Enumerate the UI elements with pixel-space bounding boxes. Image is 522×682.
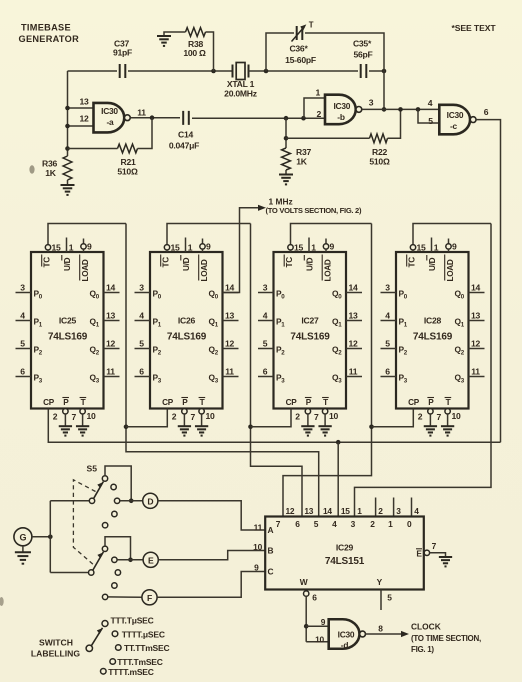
svg-text:E: E: [416, 549, 422, 559]
svg-text:11: 11: [106, 367, 115, 377]
svg-text:20.0MHz: 20.0MHz: [224, 89, 257, 99]
svg-text:LOAD: LOAD: [324, 259, 333, 281]
svg-text:9: 9: [254, 563, 259, 573]
svg-text:T: T: [309, 21, 314, 30]
svg-text:3: 3: [263, 283, 268, 293]
svg-text:10: 10: [87, 411, 97, 421]
svg-text:12: 12: [225, 339, 235, 349]
svg-text:R22: R22: [372, 147, 387, 157]
svg-text:TC: TC: [161, 257, 170, 268]
svg-text:12: 12: [79, 114, 89, 124]
svg-text:11: 11: [225, 367, 234, 377]
svg-text:1: 1: [188, 243, 193, 253]
svg-text:2: 2: [418, 412, 423, 422]
svg-text:5: 5: [139, 339, 144, 349]
svg-text:15: 15: [294, 243, 304, 253]
svg-text:P: P: [306, 398, 312, 407]
svg-text:13: 13: [79, 97, 89, 107]
svg-text:74LS151: 74LS151: [325, 556, 365, 567]
svg-text:CP: CP: [408, 398, 420, 407]
svg-text:6: 6: [20, 367, 25, 377]
svg-text:6: 6: [484, 107, 489, 117]
svg-text:14: 14: [348, 283, 358, 293]
svg-text:11: 11: [254, 523, 263, 533]
svg-text:-d: -d: [341, 640, 349, 650]
svg-text:15-60pF: 15-60pF: [285, 55, 316, 65]
svg-text:TTTT.μSEC: TTTT.μSEC: [122, 629, 165, 639]
svg-text:IC26: IC26: [178, 316, 196, 326]
svg-text:A: A: [268, 525, 274, 535]
svg-text:TC: TC: [42, 257, 51, 268]
svg-text:0.047μF: 0.047μF: [169, 141, 199, 151]
svg-text:74LS169: 74LS169: [167, 332, 207, 343]
svg-text:56pF: 56pF: [353, 50, 372, 60]
svg-text:T: T: [200, 398, 205, 407]
svg-text:10: 10: [452, 411, 462, 421]
svg-text:2: 2: [378, 506, 383, 516]
svg-text:2: 2: [295, 412, 300, 422]
svg-text:14: 14: [225, 283, 235, 293]
svg-text:B: B: [268, 546, 274, 556]
svg-text:4: 4: [20, 311, 25, 321]
svg-text:TC: TC: [407, 257, 416, 268]
svg-text:4: 4: [139, 311, 144, 321]
svg-text:C: C: [268, 567, 274, 577]
svg-text:LOAD: LOAD: [81, 259, 90, 281]
svg-text:6: 6: [295, 519, 300, 529]
svg-text:TTT.TmSEC: TTT.TmSEC: [117, 657, 162, 667]
svg-text:11: 11: [349, 367, 358, 377]
svg-text:R21: R21: [120, 157, 135, 167]
svg-text:IC29: IC29: [336, 543, 354, 553]
svg-text:510Ω: 510Ω: [117, 167, 138, 177]
svg-text:T: T: [446, 398, 451, 407]
svg-text:C14: C14: [178, 130, 193, 140]
svg-text:15: 15: [52, 243, 62, 253]
svg-text:9: 9: [330, 242, 335, 252]
svg-text:7: 7: [432, 541, 437, 551]
svg-text:T: T: [323, 398, 328, 407]
svg-text:U/D: U/D: [63, 257, 72, 271]
svg-text:15: 15: [171, 243, 181, 253]
svg-text:4: 4: [263, 311, 268, 321]
svg-text:5: 5: [387, 593, 392, 603]
svg-text:CP: CP: [43, 398, 55, 407]
svg-text:1: 1: [311, 243, 316, 253]
svg-text:W: W: [300, 577, 308, 587]
svg-text:-c: -c: [450, 121, 458, 131]
svg-text:9: 9: [87, 242, 92, 252]
svg-text:IC28: IC28: [424, 316, 442, 326]
svg-text:U/D: U/D: [182, 257, 191, 271]
svg-text:13: 13: [225, 311, 235, 321]
svg-text:P: P: [428, 398, 434, 407]
svg-text:7: 7: [72, 412, 77, 422]
svg-text:4: 4: [428, 98, 433, 108]
svg-text:74LS169: 74LS169: [413, 332, 453, 343]
svg-text:IC30: IC30: [101, 106, 118, 116]
svg-text:9: 9: [452, 242, 457, 252]
svg-text:1K: 1K: [45, 168, 57, 178]
svg-text:3: 3: [20, 283, 25, 293]
svg-text:5: 5: [428, 116, 433, 126]
svg-text:TIMEBASE: TIMEBASE: [21, 23, 71, 33]
svg-text:TC: TC: [285, 257, 294, 268]
svg-text:1: 1: [69, 243, 74, 253]
svg-text:CP: CP: [286, 398, 298, 407]
svg-text:LOAD: LOAD: [446, 259, 455, 281]
svg-text:6: 6: [385, 367, 390, 377]
svg-text:6: 6: [312, 593, 317, 603]
svg-text:14: 14: [471, 283, 481, 293]
svg-text:Y: Y: [377, 577, 383, 587]
svg-text:12: 12: [286, 506, 295, 516]
svg-text:LOAD: LOAD: [200, 259, 209, 281]
svg-text:E: E: [148, 555, 154, 565]
svg-text:91pF: 91pF: [113, 48, 132, 58]
svg-text:74LS169: 74LS169: [48, 332, 88, 343]
svg-text:LABELLING: LABELLING: [31, 649, 80, 659]
svg-text:1: 1: [315, 88, 320, 98]
svg-text:(TO TIME SECTION,: (TO TIME SECTION,: [411, 634, 481, 643]
svg-text:3: 3: [396, 506, 401, 516]
svg-text:13: 13: [471, 311, 481, 321]
svg-text:G: G: [20, 533, 27, 543]
svg-text:12: 12: [471, 339, 481, 349]
svg-text:CP: CP: [162, 398, 174, 407]
svg-text:14: 14: [106, 283, 116, 293]
svg-text:C36*: C36*: [289, 44, 308, 54]
svg-text:CLOCK: CLOCK: [411, 622, 441, 632]
svg-text:11: 11: [471, 367, 480, 377]
svg-text:U/D: U/D: [305, 257, 314, 271]
svg-text:U/D: U/D: [428, 257, 437, 271]
svg-text:5: 5: [314, 519, 319, 529]
svg-text:10: 10: [315, 635, 324, 645]
svg-text:2: 2: [172, 412, 177, 422]
svg-text:14: 14: [323, 506, 332, 516]
svg-text:10: 10: [253, 542, 262, 552]
svg-text:1: 1: [434, 243, 439, 253]
svg-text:3: 3: [351, 519, 356, 529]
svg-text:7: 7: [437, 412, 442, 422]
svg-text:3: 3: [139, 283, 144, 293]
svg-text:12: 12: [348, 339, 358, 349]
svg-text:TT.TTmSEC: TT.TTmSEC: [124, 643, 169, 653]
svg-text:S5: S5: [87, 464, 98, 474]
svg-text:IC25: IC25: [59, 316, 77, 326]
svg-text:-a: -a: [107, 117, 115, 127]
svg-text:7: 7: [191, 412, 196, 422]
svg-text:D: D: [147, 496, 153, 506]
svg-text:P: P: [63, 398, 69, 407]
svg-text:R36: R36: [42, 159, 57, 169]
svg-text:1K: 1K: [296, 157, 308, 167]
svg-text:15: 15: [417, 243, 427, 253]
svg-text:0: 0: [407, 519, 412, 529]
svg-text:10: 10: [206, 411, 216, 421]
svg-text:11: 11: [137, 108, 146, 118]
svg-text:13: 13: [106, 311, 116, 321]
svg-text:P: P: [182, 398, 188, 407]
svg-text:IC27: IC27: [301, 316, 319, 326]
svg-text:100 Ω: 100 Ω: [183, 48, 206, 58]
svg-text:10: 10: [329, 411, 339, 421]
svg-text:(TO VOLTS SECTION, FIG. 2): (TO VOLTS SECTION, FIG. 2): [266, 206, 362, 215]
svg-text:4: 4: [332, 519, 337, 529]
svg-text:13: 13: [348, 311, 358, 321]
svg-text:5: 5: [20, 339, 25, 349]
svg-text:8: 8: [378, 624, 383, 634]
svg-text:4: 4: [414, 506, 419, 516]
svg-text:F: F: [147, 593, 152, 603]
svg-text:510Ω: 510Ω: [369, 157, 390, 167]
svg-text:TTTT.mSEC: TTTT.mSEC: [108, 667, 153, 677]
svg-text:1: 1: [388, 519, 393, 529]
svg-text:2: 2: [370, 519, 375, 529]
svg-text:2: 2: [53, 412, 58, 422]
svg-text:74LS169: 74LS169: [290, 332, 330, 343]
svg-text:GENERATOR: GENERATOR: [19, 34, 80, 44]
svg-text:3: 3: [369, 98, 374, 108]
svg-text:5: 5: [385, 339, 390, 349]
svg-text:FIG. 1): FIG. 1): [411, 645, 434, 654]
svg-text:C35*: C35*: [353, 39, 372, 49]
svg-text:7: 7: [276, 519, 281, 529]
svg-text:1: 1: [357, 506, 362, 516]
svg-text:5: 5: [263, 339, 268, 349]
svg-text:TTT.TμSEC: TTT.TμSEC: [111, 615, 154, 625]
svg-text:6: 6: [263, 367, 268, 377]
svg-text:2: 2: [316, 109, 321, 119]
svg-text:9: 9: [206, 242, 211, 252]
svg-text:IC30: IC30: [447, 110, 464, 120]
svg-text:SWITCH: SWITCH: [39, 637, 73, 647]
svg-text:R37: R37: [296, 147, 311, 157]
svg-text:6: 6: [139, 367, 144, 377]
svg-text:12: 12: [106, 339, 116, 349]
svg-text:7: 7: [314, 412, 319, 422]
svg-text:4: 4: [385, 311, 390, 321]
svg-text:15: 15: [341, 506, 350, 516]
svg-text:*SEE TEXT: *SEE TEXT: [452, 23, 497, 33]
svg-text:XTAL 1: XTAL 1: [227, 79, 255, 89]
svg-text:3: 3: [385, 283, 390, 293]
svg-text:9: 9: [321, 617, 326, 627]
svg-text:IC30: IC30: [333, 101, 350, 111]
svg-text:IC30: IC30: [338, 630, 355, 640]
svg-text:-b: -b: [337, 112, 345, 122]
svg-text:T: T: [81, 398, 86, 407]
svg-text:13: 13: [304, 506, 313, 516]
